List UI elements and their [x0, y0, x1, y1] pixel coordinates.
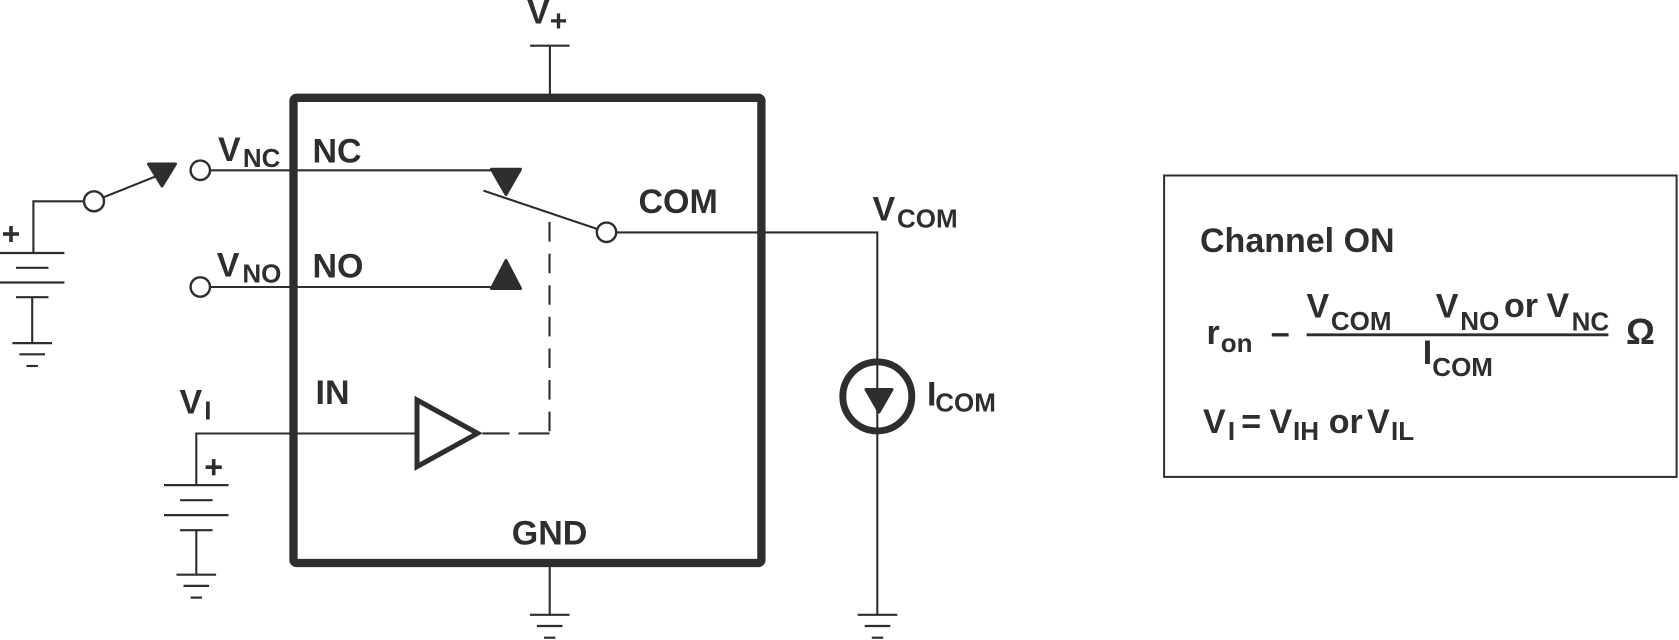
wire COM to VCOM node and down — [616, 232, 877, 614]
wire V+ to box top — [549, 46, 551, 95]
terminal circle COM — [597, 223, 616, 242]
external switch arm — [103, 176, 158, 198]
svg-text:r: r — [1207, 314, 1220, 352]
svg-text:NO: NO — [313, 248, 364, 286]
formula denominator ICOM — [1423, 334, 1493, 382]
label NO pin — [313, 248, 364, 286]
dashed control line horizontal — [483, 432, 550, 434]
svg-text:+: + — [550, 5, 568, 38]
svg-text:or: or — [1504, 287, 1538, 325]
formula VI = VIH or VIL — [1203, 403, 1414, 446]
svg-text:NO: NO — [1460, 306, 1499, 336]
label NC pin — [313, 133, 362, 171]
svg-text:COM: COM — [897, 204, 958, 234]
svg-text:COM: COM — [1331, 306, 1392, 336]
svg-text:V: V — [1367, 403, 1390, 441]
svg-text:V: V — [1547, 287, 1570, 325]
svg-text:V: V — [1270, 403, 1293, 441]
formula ohm unit — [1626, 311, 1655, 352]
label V+ — [527, 0, 567, 38]
label VNC — [218, 131, 281, 173]
wire inside current source — [876, 362, 878, 431]
wire NC — [210, 169, 512, 171]
terminal circle VNO — [191, 277, 210, 296]
switch arm to COM — [484, 191, 597, 229]
svg-text:I: I — [1423, 334, 1432, 372]
svg-text:V: V — [1307, 287, 1330, 325]
svg-text:NC: NC — [1572, 306, 1610, 336]
label Channel ON — [1200, 222, 1395, 260]
svg-text:COM: COM — [935, 388, 996, 418]
plus sign VI battery — [206, 459, 222, 475]
svg-text:COM: COM — [1432, 352, 1493, 382]
V+ supply terminal bar — [530, 45, 570, 47]
external switch pole circle — [84, 191, 104, 211]
formula r_on dash — [1207, 314, 1290, 358]
ground (GND) — [530, 615, 570, 638]
svg-text:NO: NO — [242, 259, 281, 289]
label COM pin — [639, 183, 718, 221]
IC body box U1 — [294, 98, 762, 563]
svg-text:IL: IL — [1391, 416, 1414, 446]
label ICOM — [927, 375, 996, 417]
svg-text:IN: IN — [316, 374, 350, 412]
svg-text:V: V — [527, 0, 550, 32]
current source arrow (down) — [866, 390, 892, 413]
battery B2 (VI source) — [164, 485, 229, 530]
svg-text:NC: NC — [243, 143, 281, 173]
wire VI to buffer input — [196, 434, 414, 486]
current source ICOM circle — [843, 362, 912, 431]
svg-text:V: V — [180, 384, 203, 422]
ground (left battery) — [12, 343, 52, 366]
svg-text:=: = — [1241, 403, 1261, 441]
svg-text:V: V — [873, 190, 896, 228]
wire battery B2 to ground — [195, 530, 197, 575]
svg-text:V: V — [218, 131, 241, 169]
ground (current source) — [858, 615, 898, 638]
svg-text:NC: NC — [313, 133, 362, 171]
wire pole to battery — [33, 201, 84, 253]
svg-text:or: or — [1329, 403, 1363, 441]
NO contact arrow (up) — [492, 261, 521, 289]
wire NO — [210, 286, 514, 288]
external switch contact arrow — [149, 164, 176, 186]
svg-text:IH: IH — [1293, 416, 1319, 446]
formula numerator VCOM — [1307, 287, 1392, 336]
svg-text:I: I — [204, 396, 211, 426]
svg-text:Ω: Ω — [1626, 311, 1655, 352]
svg-text:Channel ON: Channel ON — [1200, 222, 1395, 260]
label GND pin — [512, 515, 588, 553]
label VCOM — [873, 190, 958, 233]
terminal circle VNC — [191, 161, 210, 180]
buffer U2 (driver) — [417, 400, 478, 467]
wire battery B1 to ground — [31, 297, 33, 343]
ground (VI battery) — [177, 575, 217, 598]
svg-text:GND: GND — [512, 515, 588, 553]
svg-text:V: V — [1203, 403, 1226, 441]
svg-text:COM: COM — [639, 183, 718, 221]
svg-text:V: V — [1436, 288, 1459, 326]
label VNO — [217, 246, 282, 288]
plus sign left battery — [3, 226, 19, 242]
formula fraction bar — [1307, 333, 1609, 336]
wire GND to ground — [549, 565, 551, 615]
svg-text:I: I — [1228, 416, 1235, 446]
svg-text:V: V — [217, 246, 240, 284]
NC contact arrow (down) — [492, 169, 521, 194]
annotation box (Channel ON) — [1164, 176, 1677, 477]
battery B1 (left) — [0, 253, 64, 297]
label IN pin — [316, 374, 350, 412]
svg-text:on: on — [1221, 328, 1253, 358]
svg-text:–: – — [1271, 314, 1290, 352]
formula numerator VNO or VNC — [1436, 287, 1610, 336]
dashed control line vertical — [548, 215, 550, 431]
label VI — [180, 384, 212, 426]
